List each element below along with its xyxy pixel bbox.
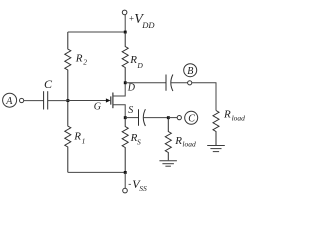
svg-text:C: C [188, 113, 195, 124]
ground B [207, 146, 225, 152]
label -VSS [128, 177, 147, 193]
wire B to Rload [192, 83, 216, 111]
svg-text:SS: SS [139, 184, 147, 193]
resistor Rload B [213, 111, 219, 146]
wire top rail [68, 31, 125, 33]
wire gate node to Q1 [68, 100, 107, 102]
svg-text:R: R [75, 52, 83, 64]
node VSS junction [124, 171, 127, 174]
terminal B open circle [188, 81, 192, 85]
transistor Q1 gate arrow [106, 98, 111, 102]
resistor Rload C [165, 118, 171, 161]
node C branch junction [167, 116, 170, 119]
ground C [159, 161, 177, 167]
capacitor CB curved plate [171, 75, 173, 92]
resistor RD [122, 32, 128, 83]
label R2 [75, 52, 87, 66]
node S [124, 116, 127, 119]
wire S to cap [125, 117, 138, 119]
svg-text:A: A [5, 96, 13, 107]
wire to C terminal [168, 117, 177, 119]
wire C to gate node [48, 100, 68, 102]
svg-text:1: 1 [82, 136, 86, 145]
svg-text:2: 2 [83, 58, 87, 67]
svg-text:B: B [187, 66, 193, 77]
resistor R1 [65, 101, 71, 173]
terminal A open circle [20, 98, 24, 102]
svg-text:R: R [129, 54, 137, 66]
wire cap to B terminal [171, 82, 188, 84]
capacitor C right plate [47, 91, 49, 109]
svg-text:D: D [136, 61, 143, 70]
terminal C open circle [177, 116, 181, 120]
svg-text:-: - [128, 179, 131, 189]
label Rload C [174, 135, 196, 149]
label +VDD [129, 12, 155, 30]
terminal B circle [184, 64, 197, 77]
wire VDD stem [124, 15, 126, 32]
wire cap to C node [143, 117, 168, 119]
label RD [129, 54, 143, 70]
wire bottom rail [68, 171, 125, 173]
capacitor CB left plate [165, 75, 167, 91]
svg-text:R: R [174, 135, 182, 147]
transistor Q1 channel bar [112, 93, 114, 109]
resistor RS [122, 118, 128, 173]
svg-text:C: C [44, 77, 53, 91]
svg-text:G: G [94, 102, 101, 113]
svg-text:D: D [127, 83, 136, 94]
label RS [130, 132, 141, 147]
svg-text:DD: DD [141, 20, 155, 30]
capacitor CC left plate [138, 109, 140, 126]
label Rload B [223, 109, 245, 123]
transistor Q1 gate bar [110, 96, 112, 104]
svg-text:load: load [232, 113, 246, 122]
terminal VSS [123, 188, 128, 193]
terminal C circle [185, 111, 198, 124]
transistor Q1 source lead [113, 105, 125, 118]
resistor R2 [65, 32, 71, 101]
node D [124, 81, 127, 84]
wire VSS stem [124, 172, 126, 188]
svg-text:S: S [137, 138, 141, 147]
node G gate junction [66, 99, 69, 102]
terminal A circle [3, 93, 17, 107]
wire input A to C [24, 100, 44, 102]
terminal VDD [122, 10, 127, 15]
capacitor C left plate [43, 91, 45, 109]
wire drain to cap [125, 82, 166, 84]
svg-text:load: load [182, 140, 196, 149]
svg-text:S: S [128, 105, 133, 116]
node VDD rail junction [124, 31, 127, 34]
transistor Q1 drain lead [113, 83, 125, 96]
svg-text:R: R [73, 131, 81, 143]
label R1 [73, 131, 85, 146]
capacitor CC curved plate [143, 109, 145, 126]
svg-text:R: R [223, 109, 231, 121]
